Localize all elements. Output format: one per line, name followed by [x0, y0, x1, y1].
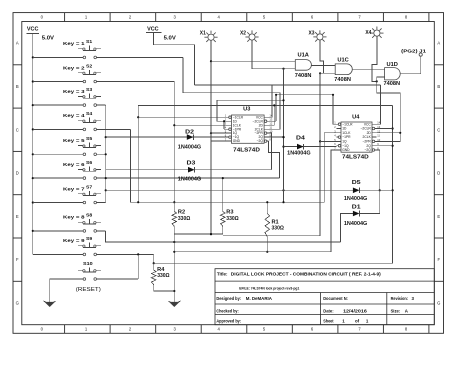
svg-text:S4: S4	[86, 111, 93, 116]
wire S3 row	[33, 104, 83, 106]
svg-text:X2: X2	[240, 31, 246, 37]
svg-text:7408N: 7408N	[334, 77, 351, 83]
wire U4 GND down	[331, 150, 337, 252]
svg-text:Key = 7: Key = 7	[63, 186, 85, 191]
wire S9 row	[33, 253, 83, 255]
svg-text:S9: S9	[86, 236, 93, 241]
svg-text:A: A	[437, 41, 440, 46]
svg-text:E: E	[437, 214, 440, 219]
svg-text:S10: S10	[83, 261, 93, 266]
svg-text:Size:: Size:	[391, 308, 401, 313]
svg-text:5.0V: 5.0V	[42, 36, 55, 42]
svg-text:Date:: Date:	[323, 308, 334, 313]
svg-text:74LS74D: 74LS74D	[233, 148, 260, 154]
svg-text:S3: S3	[86, 87, 93, 92]
pushbutton switch S6	[63, 160, 101, 180]
wire D5 line	[353, 189, 393, 191]
wire S4 net riser	[131, 129, 325, 202]
svg-text:D: D	[437, 171, 440, 176]
AND gate U1D 7408N	[384, 62, 401, 87]
wire U3 ~2Q to S6/R3	[268, 141, 279, 178]
svg-text:G: G	[437, 301, 440, 306]
wire S10 row	[50, 278, 83, 280]
wire wrong-key bus	[105, 105, 107, 202]
wire S4 row	[33, 128, 83, 130]
pushbutton switch S9	[63, 236, 101, 256]
wire R3 stems	[222, 178, 224, 211]
wire S1 net to U3 2CLK	[183, 57, 280, 129]
IC U3 74LS74D dual D flip-flop	[225, 107, 273, 154]
svg-text:Revision:: Revision:	[391, 296, 409, 301]
svg-text:~2Q: ~2Q	[257, 139, 264, 143]
pushbutton switch S4	[63, 111, 101, 131]
lamp X1	[200, 31, 218, 44]
svg-text:B: B	[437, 84, 440, 89]
lamp X4	[365, 27, 383, 40]
lamp X2	[240, 30, 259, 43]
svg-text:330Ω: 330Ω	[157, 273, 169, 279]
svg-text:S8: S8	[86, 213, 93, 218]
wire S8 row	[33, 230, 83, 232]
svg-text:D1: D1	[352, 204, 361, 210]
power VCC1 5.0V	[27, 27, 55, 58]
wire U3 GND down	[211, 141, 227, 234]
wire S2 net riser	[173, 82, 175, 212]
connector J1 (PG2)	[401, 49, 426, 57]
pushbutton switch S3	[63, 87, 101, 106]
wire U3 2D feed	[268, 105, 274, 125]
power VCC2 5.0V	[146, 26, 195, 85]
ground middle	[168, 301, 180, 307]
wire S6 row	[33, 177, 83, 179]
svg-text:Checked by:: Checked by:	[216, 308, 239, 313]
svg-text:VCC: VCC	[27, 27, 39, 33]
wire X4 net	[372, 36, 377, 81]
svg-text:C: C	[437, 127, 440, 132]
wire U1D out to J1	[400, 56, 421, 73]
wire CLR distribution	[138, 104, 392, 106]
svg-text:Sheet: Sheet	[323, 319, 334, 324]
wire VCC rail to pin14s	[195, 84, 381, 86]
svg-text:M. DeMARIA: M. DeMARIA	[246, 296, 273, 301]
svg-text:VCC: VCC	[147, 26, 159, 32]
pushbutton switch S8	[63, 213, 101, 233]
svg-text:B: B	[16, 84, 19, 89]
pushbutton switch S5	[63, 136, 101, 156]
pushbutton switch S7	[63, 184, 101, 204]
svg-text:Key = 5: Key = 5	[63, 138, 85, 143]
AND gate U1C 7408N	[334, 57, 352, 83]
svg-text:Key = 6: Key = 6	[63, 162, 85, 167]
svg-text:U4: U4	[352, 114, 359, 120]
wire U3 ~1PR jog	[223, 121, 225, 129]
svg-text:S6: S6	[86, 160, 93, 165]
resistor R2 330ohm	[172, 210, 190, 227]
svg-text:U1A: U1A	[298, 52, 310, 58]
svg-text:D2: D2	[185, 129, 194, 135]
wire U4 ~2Q down	[376, 150, 379, 190]
diode D1 1N4004G	[344, 204, 367, 227]
svg-text:C: C	[16, 127, 19, 132]
wire S9 to R4	[153, 254, 155, 263]
wire U1C out to U1D in1	[352, 68, 384, 70]
svg-text:330Ω: 330Ω	[272, 226, 284, 232]
svg-text:F: F	[438, 257, 441, 262]
wire R2 bottom stem	[173, 226, 175, 302]
pushbutton switch S1	[63, 39, 101, 59]
svg-text:330Ω: 330Ω	[226, 216, 238, 222]
svg-text:EFILE: 74LS74N lock project-r: EFILE: 74LS74N lock project-rev3-pg1	[239, 285, 300, 290]
svg-text:1N4004G: 1N4004G	[178, 145, 201, 151]
svg-text:330Ω: 330Ω	[178, 216, 190, 222]
svg-text:U3: U3	[243, 107, 250, 113]
svg-text:D4: D4	[296, 135, 305, 141]
wire VCC bus	[32, 57, 34, 254]
svg-text:S7: S7	[86, 184, 93, 189]
svg-text:DIGITAL LOCK PROJECT - COMBINA: DIGITAL LOCK PROJECT - COMBINATION CIRCU…	[231, 272, 381, 277]
wire D2 line U3 ~1Q	[106, 136, 228, 138]
wire U4 2Q out	[376, 145, 392, 147]
resistor R3 330ohm	[221, 210, 239, 227]
svg-text:Designed by:: Designed by:	[216, 296, 241, 301]
svg-text:GND: GND	[233, 139, 241, 143]
svg-text:(RESET): (RESET)	[76, 287, 101, 293]
wire S7 row	[33, 202, 83, 204]
svg-text:E: E	[16, 214, 19, 219]
wire U3 ~1CLR feed	[138, 116, 227, 118]
wire S10 riser	[137, 254, 139, 279]
svg-text:1N4004G: 1N4004G	[178, 177, 201, 183]
svg-text:X4: X4	[365, 30, 371, 36]
svg-text:D3: D3	[187, 161, 196, 167]
resistor R4 330ohm	[151, 267, 169, 285]
svg-text:Title:: Title:	[217, 272, 228, 277]
svg-text:U1C: U1C	[337, 57, 349, 63]
wire U3 1Q to X1	[211, 132, 227, 134]
svg-text:(PG2) J1: (PG2) J1	[401, 49, 426, 55]
svg-text:GND: GND	[342, 148, 350, 152]
wire U3 1D feed	[217, 100, 284, 121]
svg-text:R1: R1	[272, 219, 279, 225]
svg-text:X1: X1	[200, 31, 206, 37]
svg-text:Document N:: Document N:	[323, 296, 348, 301]
svg-text:R3: R3	[226, 210, 233, 216]
svg-text:S1: S1	[86, 39, 93, 44]
svg-text:1N4004G: 1N4004G	[287, 151, 310, 157]
svg-text:12/4/2016: 12/4/2016	[343, 308, 367, 313]
svg-text:7408N: 7408N	[384, 81, 401, 87]
pushbutton switch S2	[63, 63, 101, 82]
wire X2 net	[252, 40, 295, 69]
wire D3 line U3 ~2PR	[106, 169, 272, 171]
ground left	[44, 279, 56, 307]
svg-text:7408N: 7408N	[295, 73, 312, 79]
wire reset collector	[154, 105, 393, 263]
svg-text:X3: X3	[309, 31, 315, 37]
svg-text:S5: S5	[86, 136, 93, 141]
svg-text:Key = 3: Key = 3	[63, 89, 85, 94]
wire X3 net	[320, 40, 324, 73]
border frame	[13, 13, 444, 334]
svg-text:74LS74D: 74LS74D	[342, 155, 369, 161]
svg-text:F: F	[16, 257, 19, 262]
resistor R1 330ohm	[265, 214, 284, 237]
svg-text:S2: S2	[86, 63, 93, 68]
svg-text:Key = 9: Key = 9	[63, 238, 85, 243]
lamp X3	[309, 30, 327, 43]
wire CLR tie line	[276, 95, 337, 124]
diode D4 1N4004G	[287, 135, 310, 156]
wire U3 1CLK feed	[174, 124, 227, 126]
pushbutton switch S10	[76, 261, 101, 293]
wire R1 stems	[266, 202, 268, 213]
wire U3 2Q to X2	[268, 136, 283, 138]
diode D5 1N4004G	[344, 180, 367, 202]
wire S8 line	[105, 231, 340, 242]
wire U4 1CLK feed	[324, 133, 336, 202]
svg-text:Key = 1: Key = 1	[63, 41, 85, 46]
svg-text:5.0V: 5.0V	[164, 35, 177, 41]
wire U4 2D jog	[376, 132, 400, 134]
wire S2 row	[33, 81, 83, 83]
title block	[215, 269, 434, 325]
wire R4 stems	[153, 263, 155, 270]
svg-text:G: G	[16, 301, 19, 306]
grid labels	[16, 15, 441, 332]
wire U1A out to U1C in1	[311, 64, 335, 66]
svg-text:1N4004G: 1N4004G	[344, 196, 367, 202]
svg-text:U1D: U1D	[387, 62, 399, 68]
wire S5 row	[33, 153, 83, 155]
diode D2 1N4004G	[178, 129, 201, 150]
wire ground rail	[174, 233, 223, 235]
diode D3 1N4004G	[178, 161, 201, 183]
svg-text:Key = 4: Key = 4	[63, 113, 85, 118]
wire D1 loop	[360, 190, 380, 213]
svg-text:R4: R4	[157, 267, 164, 273]
svg-text:1N4004G: 1N4004G	[344, 221, 367, 227]
svg-text:R2: R2	[178, 210, 185, 216]
wire gnd return	[174, 251, 331, 253]
wire D4 line to U4 ~1Q	[284, 146, 337, 148]
svg-text:D5: D5	[352, 180, 361, 186]
svg-text:A: A	[16, 41, 19, 46]
svg-text:of: of	[355, 319, 360, 324]
AND gate U1A 7408N	[295, 52, 312, 78]
IC U4 74LS74D dual D flip-flop	[334, 114, 380, 160]
wire S7 reset line	[106, 189, 353, 191]
svg-text:Key = 8: Key = 8	[63, 215, 85, 220]
svg-text:Key = 2: Key = 2	[63, 65, 85, 70]
wire U4 ~2CLR jog	[376, 128, 392, 130]
wire X1 net	[210, 40, 212, 234]
wire U4 1Q to X3	[320, 140, 337, 142]
wire S1 row	[33, 56, 83, 58]
svg-text:Approved by:: Approved by:	[216, 319, 241, 324]
svg-text:~2Q: ~2Q	[364, 148, 371, 152]
svg-text:D: D	[16, 171, 19, 176]
